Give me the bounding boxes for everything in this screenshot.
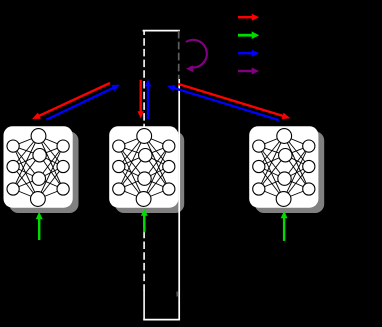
blue arrow middle box up to center	[145, 79, 151, 119]
green input arrow right box	[281, 211, 288, 241]
central buffer rectangle top edge	[143, 30, 180, 32]
left worker network box shadow	[9, 132, 78, 214]
purple self-loop arc	[186, 40, 207, 72]
blue arrow left box to center	[46, 85, 120, 120]
legend red arrow	[238, 14, 259, 21]
right worker network box shadow	[255, 132, 324, 214]
red arrow center to right box	[178, 84, 290, 119]
central rectangle right edge gray dashed top part	[178, 31, 180, 79]
green input arrow middle box	[141, 208, 148, 232]
gray dash tick near bottom right edge	[176, 292, 178, 297]
middle worker network box	[109, 126, 178, 208]
legend green arrow	[238, 31, 259, 39]
right worker network box	[249, 126, 318, 208]
left worker network box	[4, 126, 73, 208]
red arrow center down to middle box	[138, 80, 144, 119]
central rectangle right edge solid	[178, 79, 180, 320]
legend purple arrow	[238, 68, 259, 75]
red arrow center to left box	[32, 83, 110, 119]
central rectangle left edge solid bottom part	[143, 291, 145, 321]
legend blue arrow	[238, 50, 259, 57]
middle worker network box shadow	[115, 132, 184, 214]
green input arrow left box	[36, 212, 43, 240]
central rectangle left edge (dashed)	[143, 30, 145, 291]
central rectangle bottom edge	[143, 319, 179, 321]
blue arrow right box to center	[167, 85, 279, 120]
